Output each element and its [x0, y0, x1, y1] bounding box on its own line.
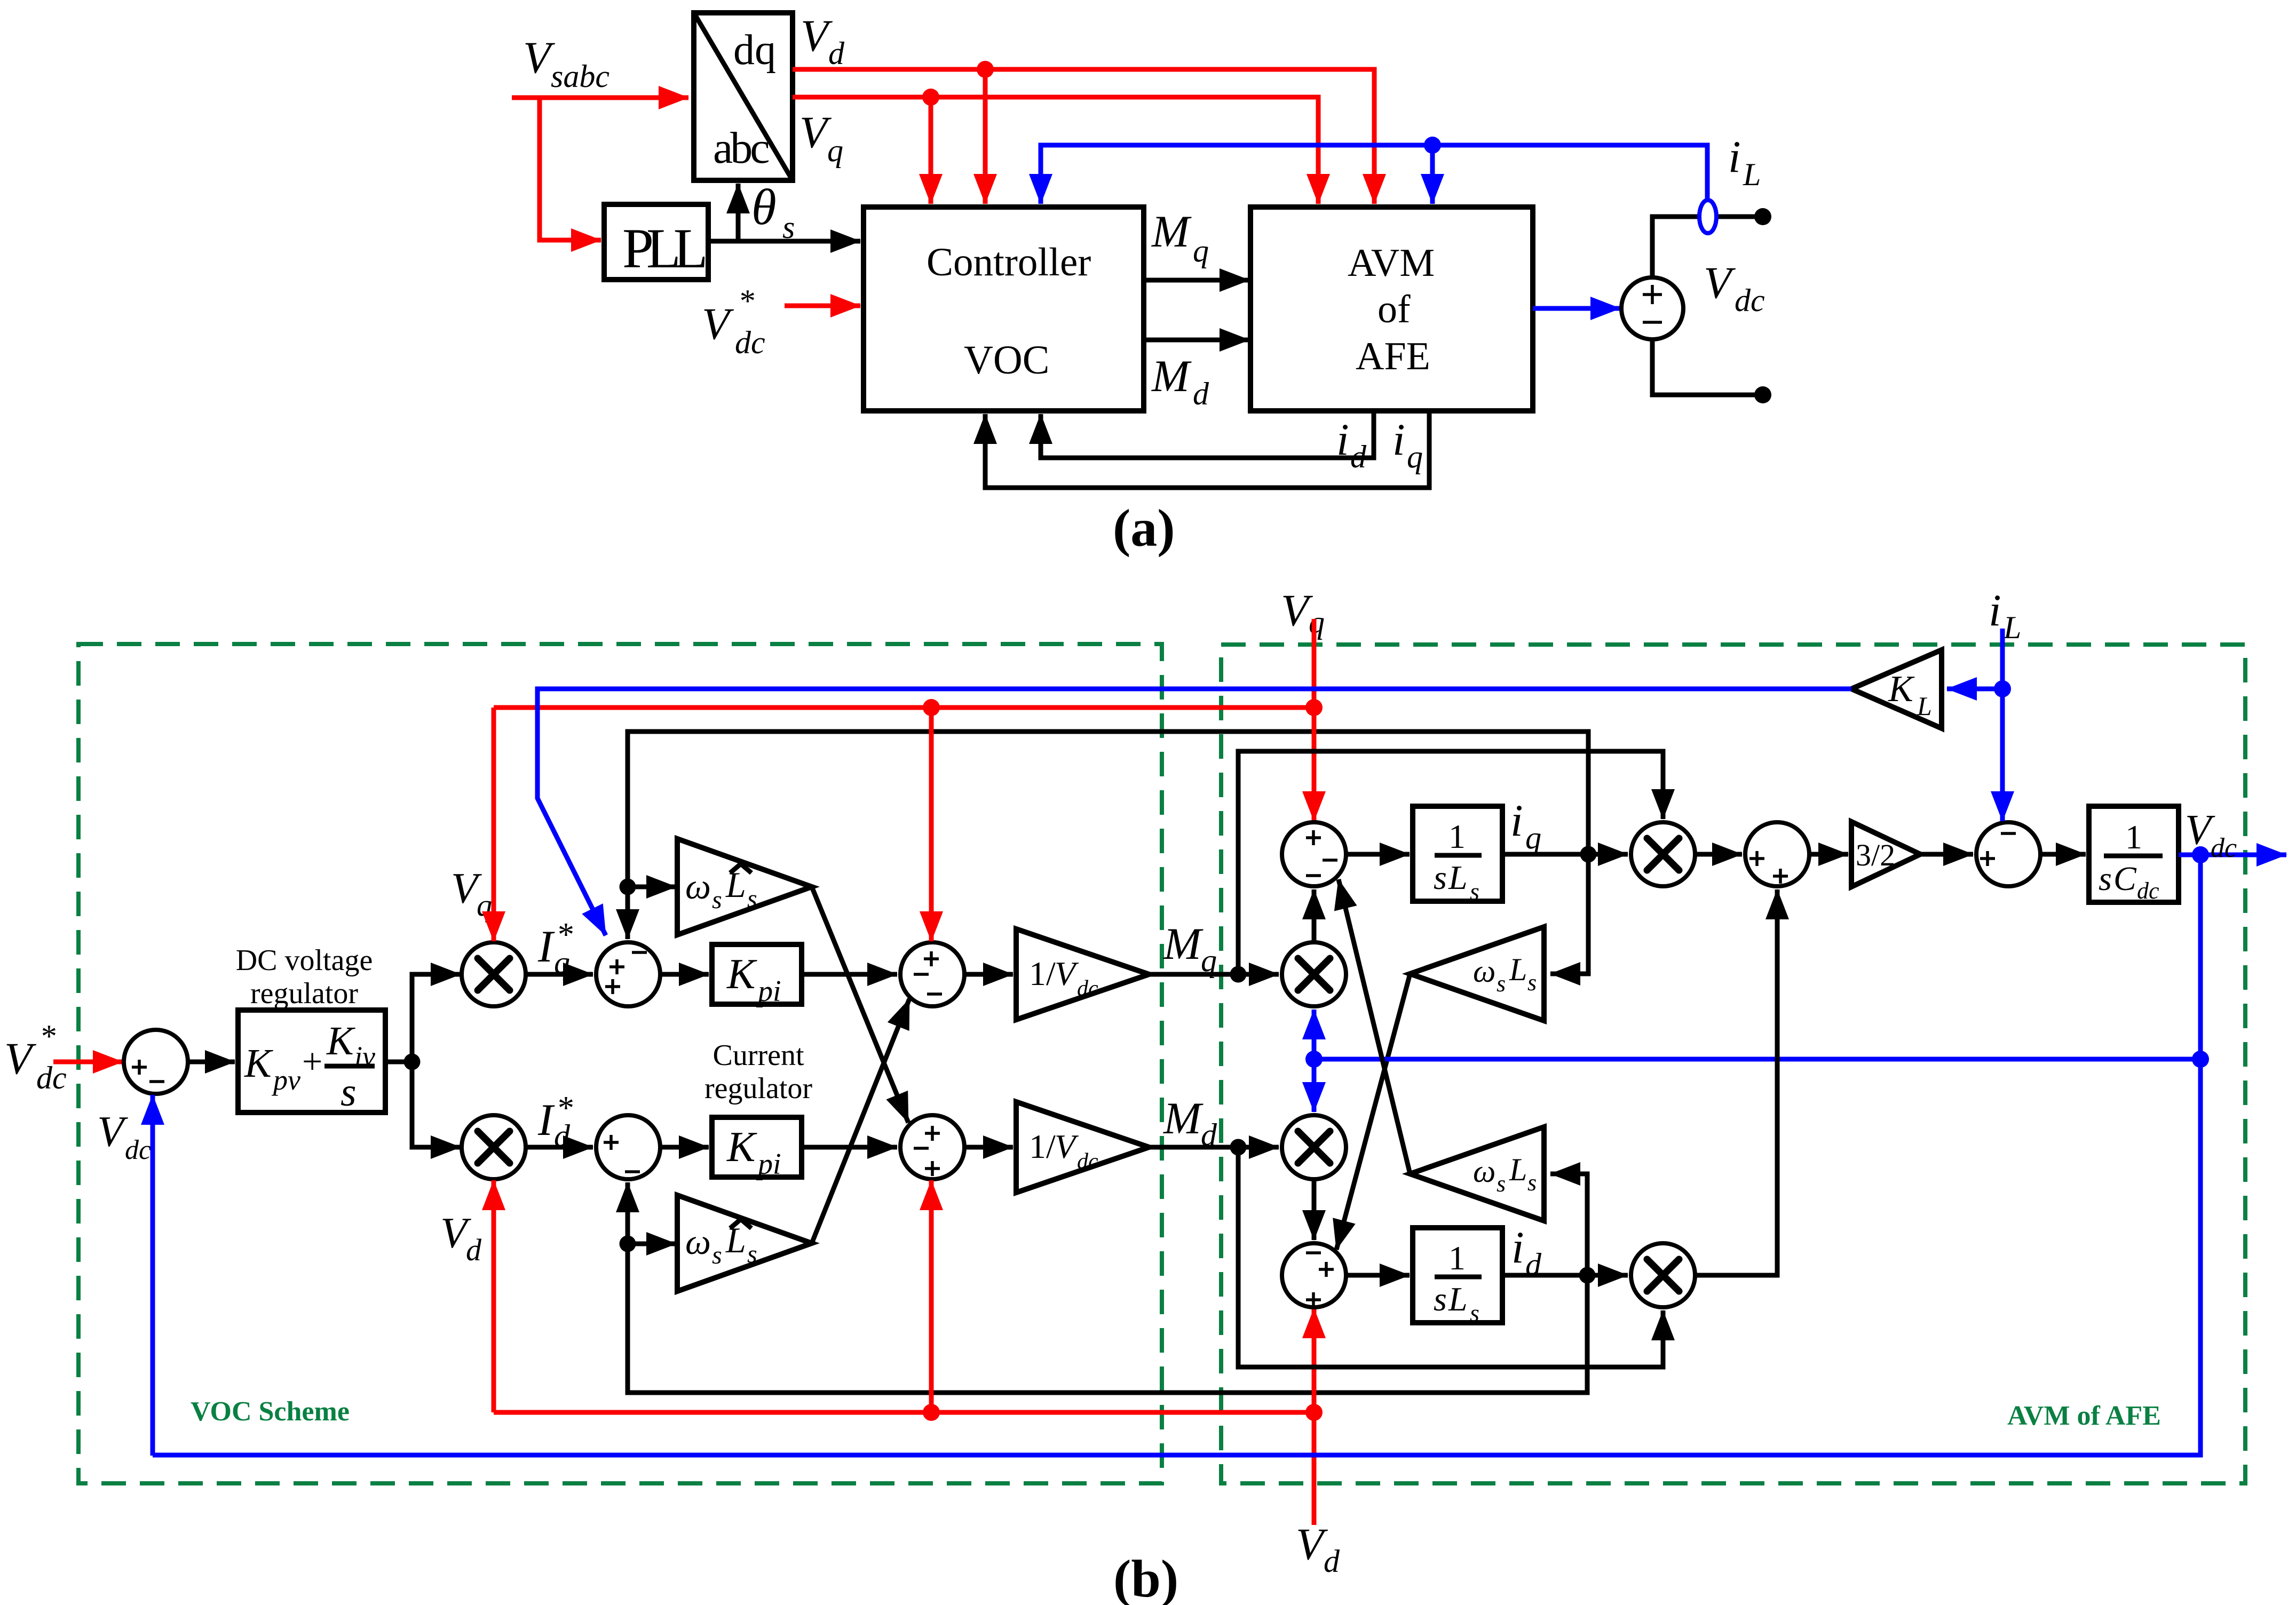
svg-text:s: s [1470, 878, 1479, 905]
svg-text:V: V [97, 1107, 128, 1156]
wire Vdc bottom terminal [1652, 339, 1771, 403]
svg-text:C: C [2113, 860, 2137, 897]
svg-text:dc: dc [1077, 976, 1098, 1001]
wire Md to X4 [1149, 1145, 1279, 1150]
wire KL output blue to A1 [537, 689, 1851, 935]
node Vq branch [922, 89, 939, 204]
svg-text:dc: dc [735, 325, 765, 360]
gain wsLs d [1410, 1127, 1544, 1221]
svg-text:pi: pi [756, 975, 781, 1008]
svg-text:AFE: AFE [1356, 335, 1430, 378]
wire wsLs d diag to S4 [1339, 879, 1410, 1174]
svg-text:s: s [712, 1241, 722, 1269]
box AVM of AFE dashed [1221, 645, 2245, 1483]
svg-text:q: q [1309, 605, 1325, 640]
svg-text:q: q [477, 888, 492, 923]
svg-text:L: L [1448, 859, 1468, 896]
gain KL [1851, 650, 1942, 728]
svg-text:K: K [726, 1124, 757, 1171]
wire S4 to 1/sLs q [1346, 852, 1410, 857]
svg-text:s: s [1527, 1170, 1537, 1196]
wire 3/2 to S6 [1920, 852, 1973, 857]
svg-text:L: L [1917, 691, 1932, 721]
current sensor iL [1699, 200, 1716, 233]
svg-text:i: i [1392, 415, 1405, 465]
svg-text:θ: θ [751, 179, 777, 235]
svg-text:M: M [1151, 206, 1192, 257]
svg-text:q: q [827, 133, 843, 168]
label iq-a [1392, 415, 1423, 474]
svg-text:K: K [726, 951, 757, 998]
label Vdc-ref-a [702, 283, 765, 360]
multiplier X4 [1282, 1115, 1346, 1179]
svg-text:V: V [702, 299, 734, 349]
block 1/sLs d [1413, 1228, 1502, 1326]
svg-text:dc: dc [125, 1135, 151, 1165]
label Vdc-ref-b [4, 1019, 67, 1095]
svg-text:AVM: AVM [1348, 241, 1435, 285]
label Vd [801, 11, 845, 71]
wire iL blue to controller and AVM [1041, 145, 1707, 204]
gain ws-Lhat-s q [677, 839, 812, 935]
svg-text:L: L [1448, 1280, 1468, 1318]
wire B1 to Kpi2 [660, 1145, 709, 1150]
svg-text:pi: pi [756, 1148, 781, 1181]
wire S8 to 1/sLs d [1346, 1273, 1410, 1278]
node Vd at B2 [923, 1180, 940, 1421]
wire ws-Lhat-s q diag to B2 [812, 887, 908, 1123]
svg-text:i: i [1989, 585, 2001, 635]
summer B1 [596, 1115, 660, 1179]
svg-text:pv: pv [271, 1064, 300, 1096]
label (b) [1113, 1549, 1178, 1605]
block 1/sLs q [1413, 806, 1502, 905]
node Vq at A2 [923, 699, 940, 941]
gain wsLs q [1410, 927, 1544, 1021]
wire S6 to 1/sCdc [2040, 852, 2086, 857]
svg-text:dc: dc [1735, 283, 1765, 318]
svg-text:K: K [244, 1041, 273, 1086]
svg-text:s: s [747, 885, 757, 913]
node iL [1994, 680, 2011, 697]
wire theta-s to controller [708, 239, 860, 244]
multiplier X3 [1282, 942, 1346, 1006]
label AVM of AFE [2007, 1401, 2161, 1431]
wire id feedback lower [628, 1182, 1587, 1393]
box VOC Scheme dashed [78, 644, 1162, 1483]
svg-text:DC voltage: DC voltage [236, 944, 373, 977]
svg-text:dq: dq [733, 27, 776, 74]
summer A2 [900, 942, 964, 1006]
wire Vsabc branch to PLL [540, 98, 601, 240]
wire iq down into wsLs q [1550, 854, 1588, 974]
label VOC Scheme [191, 1396, 350, 1427]
node iq [1580, 846, 1597, 863]
svg-text:AVM of AFE: AVM of AFE [2007, 1401, 2161, 1431]
svg-text:L: L [1509, 1152, 1527, 1187]
label iq-b [1510, 796, 1541, 855]
svg-text:VOC: VOC [964, 338, 1049, 383]
svg-text:s: s [712, 886, 722, 914]
wire X3 up into S4 [1312, 889, 1317, 942]
svg-text:s: s [782, 210, 795, 245]
wire Vq to AVM [793, 97, 1318, 204]
svg-text:ω: ω [1473, 954, 1495, 989]
svg-text:s: s [1497, 1171, 1506, 1197]
label id-b [1511, 1222, 1542, 1282]
node Vd main [1305, 1404, 1323, 1421]
label Vdc-fb [97, 1107, 151, 1165]
block AVM of AFE [1250, 207, 1533, 411]
svg-text:d: d [1201, 1117, 1217, 1153]
wire Vdc-ref into controller [785, 304, 860, 308]
svg-text:s: s [1434, 1280, 1447, 1318]
wire Vdc output blue [2179, 853, 2286, 857]
wire iL into KL [1947, 687, 2002, 692]
summer A1 [596, 942, 660, 1006]
svg-text:V: V [4, 1034, 37, 1084]
block Kpi1 [712, 944, 802, 1008]
wire iq feedback upper [628, 732, 1588, 939]
label theta-s [751, 179, 795, 245]
svg-text:regulator: regulator [250, 977, 358, 1010]
label Vq top [1281, 585, 1325, 640]
svg-text:1: 1 [1448, 817, 1466, 855]
svg-text:d: d [828, 36, 845, 71]
multiplier X2 [462, 1115, 526, 1179]
svg-text:I: I [537, 921, 555, 972]
svg-text:ω: ω [685, 866, 711, 907]
block Kpi2 [712, 1117, 802, 1181]
node PI output [404, 1054, 421, 1070]
svg-text:dc: dc [36, 1060, 67, 1095]
label Vd bottom [1296, 1519, 1340, 1579]
wire Vdc blue into X4 [1312, 1059, 1317, 1112]
svg-text:s: s [1434, 859, 1447, 896]
wire Vdc blue into X3 [1312, 1010, 1317, 1059]
wire to multiplier X2 [412, 1062, 461, 1147]
svg-text:s: s [1497, 971, 1506, 997]
node Vdc blue lower [2192, 1051, 2209, 1068]
svg-text:i: i [1511, 1222, 1524, 1273]
svg-text:regulator: regulator [704, 1072, 812, 1105]
summer S7 [1745, 822, 1809, 886]
wire ws-Lhat-s d diag to A2 [812, 999, 909, 1243]
block PLL [604, 204, 708, 280]
svg-text:M: M [1163, 919, 1204, 969]
label Vq [799, 107, 843, 168]
svg-text:L: L [2003, 610, 2021, 645]
label Vd at X2 [440, 1209, 482, 1267]
label Mq-b [1163, 919, 1217, 978]
label iL-a [1728, 132, 1761, 192]
svg-text:d: d [466, 1233, 482, 1267]
block dq/abc transform [694, 13, 793, 180]
DIAGRAM-A [512, 11, 1771, 558]
svg-text:q: q [1525, 820, 1541, 855]
svg-text:I: I [537, 1095, 555, 1145]
svg-text:L: L [1743, 157, 1761, 192]
block 1/sCdc [2089, 806, 2179, 904]
svg-text:i: i [1510, 796, 1523, 846]
label id-a [1336, 415, 1367, 474]
node Md [1230, 1139, 1247, 1156]
wire iL blue vertical into S6 [2000, 629, 2005, 821]
label Md-a [1151, 351, 1209, 411]
svg-text:+: + [302, 1041, 322, 1082]
node Vq main [1305, 699, 1323, 716]
gain 1/Vdc q [1016, 929, 1149, 1020]
wire X2 to B1 [526, 1145, 593, 1150]
label iL top [1989, 585, 2021, 645]
svg-text:(b): (b) [1113, 1549, 1178, 1605]
svg-text:s: s [1470, 1299, 1479, 1326]
svg-text:PLL: PLL [622, 217, 705, 280]
svg-text:d: d [1525, 1247, 1542, 1282]
wire theta-s to dq/abc [736, 184, 741, 241]
gain 3/2 [1851, 822, 1920, 887]
svg-text:q: q [554, 945, 570, 980]
wire Vq vertical into sum4 [1312, 619, 1317, 821]
wire id up into wsLs d [1550, 1174, 1587, 1275]
svg-text:K: K [1888, 669, 1915, 710]
wire iq feedback a [985, 411, 1429, 488]
block Controller VOC [864, 207, 1144, 411]
svg-text:K: K [326, 1019, 355, 1063]
wire Mq [1144, 278, 1249, 283]
wire A1 to Kpi1 [660, 972, 709, 977]
svg-text:1/: 1/ [1029, 1127, 1056, 1165]
svg-text:i: i [1728, 132, 1741, 182]
wire PI output [385, 1060, 412, 1064]
svg-text:*: * [738, 283, 754, 319]
wire X1 to A1 [526, 972, 593, 977]
svg-text:i: i [1336, 415, 1349, 465]
svg-text:V: V [1704, 258, 1736, 308]
wire to multiplier X1 [412, 974, 461, 1062]
svg-text:(a): (a) [1113, 498, 1175, 558]
wire id to X6 [1502, 1273, 1628, 1278]
svg-text:sabc: sabc [551, 59, 609, 94]
svg-text:VOC Scheme: VOC Scheme [191, 1396, 350, 1427]
wire Kpi2 to B2 [802, 1145, 897, 1150]
wire Vdc blue horizontal [1314, 1057, 2200, 1062]
DIAGRAM-B [4, 585, 2286, 1605]
label DC voltage regulator [236, 944, 373, 1010]
label Vq at X1 [451, 864, 492, 923]
wire Vd vertical into sum8 [1312, 1308, 1317, 1525]
svg-text:ω: ω [685, 1221, 711, 1262]
svg-text:1/: 1/ [1029, 955, 1056, 992]
svg-text:s: s [341, 1070, 357, 1115]
gain ws-Lhat-s d [677, 1195, 812, 1291]
summer Vdc error [124, 1030, 188, 1094]
wire iq to X5 [1502, 852, 1628, 857]
svg-text:*: * [39, 1019, 56, 1054]
wire AVM output blue [1533, 306, 1620, 311]
wire Kpi1 to A2 [802, 972, 897, 977]
svg-text:1: 1 [1448, 1239, 1466, 1277]
svg-text:dc: dc [2211, 833, 2237, 863]
label Vsabc [523, 33, 609, 94]
wire Vq distribution red [494, 705, 1314, 710]
wire summer to PI [188, 1060, 235, 1064]
wire Vd into X2 [492, 1180, 496, 1412]
wire X5 to S7 [1695, 852, 1742, 857]
svg-text:s: s [1527, 970, 1537, 996]
wire Vdc-ref input [53, 1060, 123, 1064]
svg-text:s: s [747, 1240, 757, 1268]
label Current regulator [704, 1039, 812, 1105]
label Vdc-out [2185, 807, 2237, 863]
wire S7 to 3/2 [1809, 852, 1848, 857]
label Id-ref [537, 1090, 573, 1154]
wire X4 down into S8 [1312, 1179, 1317, 1240]
wire Vd distribution red [494, 1410, 1314, 1415]
svg-text:s: s [2099, 860, 2112, 897]
block Kpv+Kiv/s [238, 1010, 385, 1115]
node Vdc blue mid [1305, 1051, 1323, 1068]
node blue branch to AVM [1424, 137, 1441, 204]
svg-text:dc: dc [2137, 878, 2159, 904]
summer S4 iq [1282, 822, 1346, 886]
wire B2 to 1/Vdc2 [964, 1145, 1013, 1150]
wire iq fb branch into ws-Lhat-s q [620, 879, 677, 895]
label Vdc-a [1704, 258, 1765, 318]
label Iq-ref [537, 917, 573, 980]
wire Vdc blue feedback down and left [153, 855, 2200, 1455]
svg-text:d: d [1350, 439, 1367, 474]
wire wsLs q diag to S8 [1336, 974, 1410, 1250]
svg-text:dc: dc [1077, 1149, 1098, 1174]
wire Vq into X1 [492, 708, 496, 941]
wire X6 up into S7 [1695, 889, 1777, 1275]
svg-text:M: M [1151, 351, 1192, 401]
label (a) [1113, 498, 1175, 558]
svg-text:3/2: 3/2 [1856, 838, 1895, 872]
label Mq-a [1151, 206, 1209, 268]
svg-text:q: q [1201, 943, 1217, 978]
gain 1/Vdc d [1016, 1102, 1149, 1193]
svg-text:1: 1 [2125, 818, 2142, 856]
svg-text:of: of [1377, 288, 1411, 331]
svg-text:d: d [1324, 1544, 1340, 1579]
summer S6 [1976, 822, 2040, 886]
svg-text:ω: ω [1473, 1154, 1495, 1189]
svg-text:Controller: Controller [927, 240, 1091, 284]
node Vd branch [977, 61, 994, 204]
wire blue Vdc feedback up into summer [151, 1095, 155, 1456]
svg-text:d: d [1193, 376, 1209, 411]
label Md-b [1163, 1093, 1217, 1153]
multiplier X5 [1631, 822, 1695, 886]
svg-text:L: L [1509, 952, 1527, 987]
node Mq [1230, 966, 1247, 983]
node Vdc out [2192, 846, 2209, 863]
svg-text:q: q [1193, 233, 1209, 268]
wire Vdc top terminal [1652, 208, 1771, 277]
node id [1579, 1267, 1596, 1284]
wire Mq feedforward to X5 [1238, 751, 1663, 974]
summer S8 id [1282, 1243, 1346, 1307]
wire A2 to 1/Vdc1 [964, 972, 1013, 977]
wire Md feedforward to X6 [1238, 1147, 1663, 1367]
wire Vd to AVM [793, 69, 1374, 204]
wire id fb branch into ws-Lhat-s d [620, 1236, 677, 1252]
svg-text:q: q [1407, 439, 1423, 474]
svg-text:M: M [1163, 1093, 1204, 1143]
wire Mq to X3 [1149, 972, 1279, 977]
wire Md [1144, 338, 1249, 343]
summer B2 [900, 1115, 964, 1179]
multiplier X1 [462, 942, 526, 1006]
wire Vsabc input [512, 96, 688, 100]
svg-text:d: d [554, 1118, 571, 1154]
multiplier X6 [1631, 1243, 1695, 1307]
source Vdc [1621, 277, 1683, 339]
wire id feedback a [1041, 411, 1374, 458]
svg-text:abc: abc [713, 123, 769, 173]
svg-text:Current: Current [712, 1039, 804, 1072]
